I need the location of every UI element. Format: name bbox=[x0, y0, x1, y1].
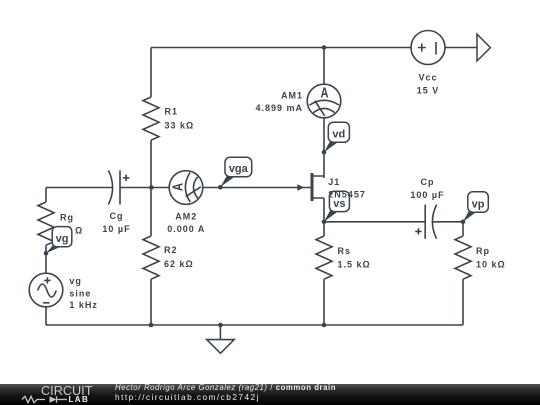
capacitor Cg bbox=[108, 170, 129, 204]
wire left branch top bbox=[45, 188, 47, 203]
svg-text:Vcc: Vcc bbox=[418, 73, 437, 83]
ground bbox=[207, 325, 235, 353]
svg-text:4.899 mA: 4.899 mA bbox=[255, 103, 303, 113]
node flag vga bbox=[218, 157, 252, 189]
svg-text:AM1: AM1 bbox=[281, 90, 303, 100]
wire R1 top stub bbox=[150, 48, 152, 98]
label J1 bbox=[328, 177, 366, 199]
voltage source vg bbox=[29, 273, 63, 307]
svg-text:vga: vga bbox=[229, 163, 249, 175]
svg-text:vd: vd bbox=[332, 129, 345, 141]
junction dot bottom Rs bbox=[322, 323, 327, 328]
ammeter AM2 bbox=[169, 171, 203, 205]
svg-text:15 V: 15 V bbox=[417, 86, 440, 96]
wire Cg to AM2 bbox=[120, 187, 169, 189]
svg-text:Cg: Cg bbox=[110, 211, 124, 221]
resistor R1 bbox=[143, 97, 159, 140]
node flag vd bbox=[322, 122, 350, 154]
svg-text:vg: vg bbox=[56, 233, 69, 245]
resistor Rs bbox=[316, 236, 332, 279]
svg-text:100 µF: 100 µF bbox=[410, 190, 444, 200]
junction dot bottom R2 bbox=[149, 323, 154, 328]
wire R2 top stub bbox=[150, 188, 152, 237]
node flag vs bbox=[324, 191, 349, 222]
wire Vcc to terminal bbox=[445, 47, 477, 49]
resistor R2 bbox=[143, 236, 159, 279]
credits text bbox=[115, 382, 336, 393]
capacitor Cp bbox=[415, 205, 436, 239]
wire bottom bus bbox=[46, 324, 463, 326]
svg-text:vg: vg bbox=[69, 276, 82, 286]
wire Rp bottom stub bbox=[462, 279, 464, 325]
junction dot Cg/R1/R2 node bbox=[149, 185, 154, 190]
wire Rs top stub bbox=[323, 222, 325, 236]
wire vp node to Rp bbox=[462, 222, 464, 236]
wire Rg to vg source bbox=[45, 245, 47, 273]
ammeter AM1 bbox=[307, 84, 341, 118]
svg-text:1 kHz: 1 kHz bbox=[69, 300, 98, 310]
svg-text:Ω: Ω bbox=[75, 226, 83, 236]
CircuitLab logo bbox=[41, 385, 92, 397]
svg-text:Rg: Rg bbox=[60, 212, 74, 222]
junction dot vs node bbox=[322, 220, 327, 225]
svg-text:A: A bbox=[170, 183, 187, 191]
svg-text:sine: sine bbox=[69, 289, 91, 299]
svg-text:J1: J1 bbox=[328, 177, 340, 187]
output terminal arrow bbox=[477, 34, 490, 61]
resistor Rp bbox=[455, 236, 471, 279]
wire Rs bottom stub bbox=[323, 279, 325, 325]
svg-text:A: A bbox=[321, 84, 329, 101]
svg-text:vs: vs bbox=[333, 198, 345, 210]
resistor Rg bbox=[38, 202, 54, 245]
svg-text:R2: R2 bbox=[164, 245, 178, 255]
wire input node to Cg bbox=[46, 187, 112, 189]
voltage source Vcc bbox=[411, 31, 445, 65]
node flag vg bbox=[44, 227, 72, 256]
svg-text:AM2: AM2 bbox=[175, 212, 197, 222]
svg-text:Cp: Cp bbox=[421, 177, 435, 187]
footer bar bbox=[0, 384, 540, 405]
svg-text:62 kΩ: 62 kΩ bbox=[164, 259, 194, 269]
svg-text:R1: R1 bbox=[165, 106, 179, 116]
wire vg source to bottom bus bbox=[45, 307, 47, 325]
svg-text:2N5457: 2N5457 bbox=[328, 189, 366, 199]
wire top bus bbox=[151, 47, 411, 49]
wire source node to Cp bbox=[324, 221, 425, 223]
svg-text:Rp: Rp bbox=[476, 246, 490, 256]
svg-text:1.5 kΩ: 1.5 kΩ bbox=[338, 260, 371, 270]
node flag vp bbox=[461, 192, 489, 224]
wire AM2 to gate bbox=[203, 187, 311, 189]
wire Cp to vp node bbox=[432, 221, 463, 223]
wire AM1 top stub bbox=[323, 48, 325, 85]
svg-text:vp: vp bbox=[472, 199, 485, 211]
wire AM1 to drain bbox=[323, 118, 325, 176]
svg-text:10 kΩ: 10 kΩ bbox=[476, 260, 506, 270]
svg-text:10 µF: 10 µF bbox=[102, 224, 130, 234]
wire R1 bottom stub bbox=[150, 140, 152, 187]
svg-text:Rs: Rs bbox=[338, 246, 352, 256]
svg-text:0.000 A: 0.000 A bbox=[167, 224, 205, 234]
gate arrow of J1 bbox=[297, 184, 304, 190]
wire R2 bottom stub bbox=[150, 279, 152, 325]
transistor J1 (N-JFET) bbox=[312, 173, 324, 222]
junction dot top drain node bbox=[322, 45, 327, 50]
junction dot bottom ground bbox=[218, 323, 223, 328]
svg-text:33 kΩ: 33 kΩ bbox=[165, 120, 195, 130]
